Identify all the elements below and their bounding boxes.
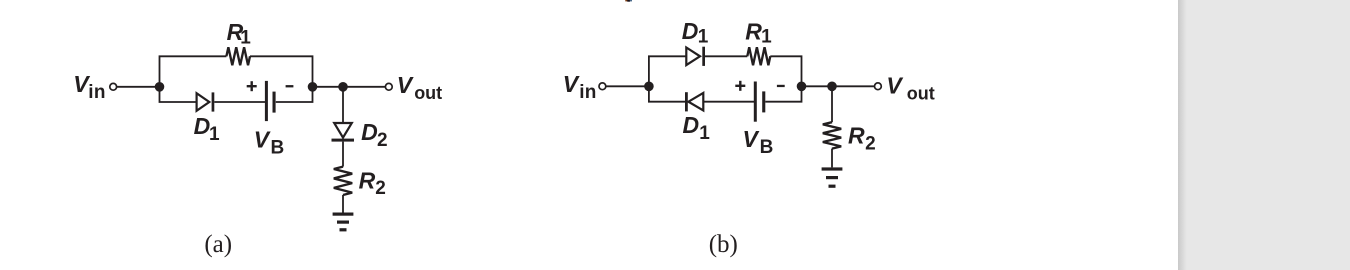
wire battery VB to node B (a)	[276, 87, 313, 102]
battery plus sign (b)	[735, 81, 745, 91]
wire node A down to diode D1 (a)	[160, 87, 197, 102]
svg-text:V: V	[743, 126, 760, 152]
diode D1 (a)	[197, 92, 215, 111]
svg-text:(b): (b)	[709, 231, 738, 258]
battery VB (b)	[754, 82, 766, 122]
svg-text:R: R	[745, 19, 762, 45]
label Vout (b)	[886, 72, 934, 103]
svg-text:D: D	[682, 18, 699, 44]
label D1 top (b)	[682, 18, 709, 48]
ground (b)	[822, 167, 843, 187]
svg-text:D: D	[683, 112, 700, 138]
node E junction dot (b)	[797, 82, 807, 92]
wire node C to Vout terminal (a)	[343, 86, 385, 88]
terminal Vin (a)	[110, 83, 117, 90]
wire node F to Vout terminal (b)	[832, 85, 874, 87]
stray cropped glyph mark at top edge	[625, 0, 632, 2]
wire node D up to diode D1 top (b)	[649, 56, 686, 86]
wire node E to node F (b)	[802, 85, 833, 87]
gray sidebar panel	[1178, 0, 1350, 270]
label D2 (a)	[361, 119, 387, 151]
wire Vin terminal to node D (b)	[606, 85, 649, 87]
svg-text:V: V	[563, 71, 580, 97]
svg-text:in: in	[88, 82, 106, 103]
wire diode D2 to resistor R2 (a)	[342, 142, 344, 167]
svg-text:V: V	[886, 72, 903, 98]
resistor R1 (a)	[226, 47, 250, 65]
svg-text:D: D	[361, 119, 378, 145]
svg-text:1: 1	[698, 27, 709, 48]
wire node C down to diode D2 (a)	[342, 87, 344, 123]
label VB (a)	[254, 127, 285, 159]
svg-text:2: 2	[375, 178, 386, 199]
battery plus sign (a)	[247, 81, 257, 91]
wire diode D1 top to resistor R1 (b)	[705, 55, 747, 57]
wire node D down to diode D1 bottom (b)	[649, 86, 685, 101]
label VB (b)	[743, 126, 774, 158]
label Vout (a)	[397, 72, 442, 103]
svg-text:B: B	[760, 137, 774, 158]
wire resistor R1 to node B (a)	[250, 56, 313, 87]
terminal Vout (a)	[385, 83, 392, 90]
svg-text:V: V	[254, 127, 271, 153]
battery minus sign (a)	[286, 85, 294, 87]
svg-text:1: 1	[209, 124, 220, 145]
svg-text:1: 1	[761, 27, 772, 48]
diode D2 (a)	[332, 123, 355, 142]
resistor R2 (a)	[334, 167, 352, 195]
svg-text:D: D	[194, 113, 211, 139]
resistor R1 (b)	[747, 47, 770, 65]
ground (a)	[333, 213, 354, 232]
node F junction dot (b)	[827, 82, 837, 92]
label Vin (b)	[563, 71, 597, 103]
node A junction dot (a)	[155, 82, 165, 92]
terminal Vout (b)	[875, 83, 882, 90]
svg-text:out: out	[907, 83, 935, 103]
battery VB (a)	[265, 81, 276, 121]
wire resistor R2 to ground (a)	[342, 195, 344, 213]
label R1 (b)	[745, 19, 772, 48]
svg-text:V: V	[397, 72, 414, 98]
label D1 (a)	[194, 113, 220, 145]
svg-text:(a): (a)	[204, 231, 232, 258]
battery minus sign (b)	[777, 85, 785, 87]
diode D1 top (b)	[686, 47, 705, 66]
svg-text:R: R	[359, 167, 376, 193]
wire diode D1 bottom to battery VB (b)	[703, 101, 754, 103]
svg-text:1: 1	[240, 27, 251, 48]
svg-text:2: 2	[377, 130, 388, 151]
wire diode D1 to battery VB (a)	[214, 101, 265, 103]
node B junction dot (a)	[308, 82, 318, 92]
resistor R2 (b)	[823, 122, 841, 148]
wire resistor R1 to node E (b)	[770, 56, 801, 86]
label R2 (a)	[359, 167, 386, 199]
svg-text:out: out	[414, 83, 442, 103]
svg-text:in: in	[579, 82, 597, 103]
node C junction dot (a)	[338, 82, 348, 92]
label D1 bottom (b)	[683, 112, 711, 144]
wire node A up to resistor R1 (a)	[160, 56, 227, 87]
terminal Vin (b)	[599, 83, 606, 90]
svg-text:R: R	[848, 122, 865, 148]
svg-text:B: B	[271, 138, 285, 159]
label R2 (b)	[848, 122, 876, 154]
wire battery VB to node E (b)	[765, 86, 801, 101]
svg-text:2: 2	[865, 134, 876, 155]
label Vin (a)	[73, 71, 106, 103]
label R1 (a)	[227, 19, 252, 49]
wire node B to node C (a)	[313, 86, 344, 88]
node D junction dot (b)	[644, 82, 654, 92]
diode D1 bottom (b)	[685, 92, 703, 111]
wire node F down to resistor R2 (b)	[831, 86, 833, 122]
wire resistor R2 to ground (b)	[831, 149, 833, 168]
svg-text:1: 1	[699, 123, 710, 144]
wire Vin terminal to node A (a)	[117, 86, 160, 88]
